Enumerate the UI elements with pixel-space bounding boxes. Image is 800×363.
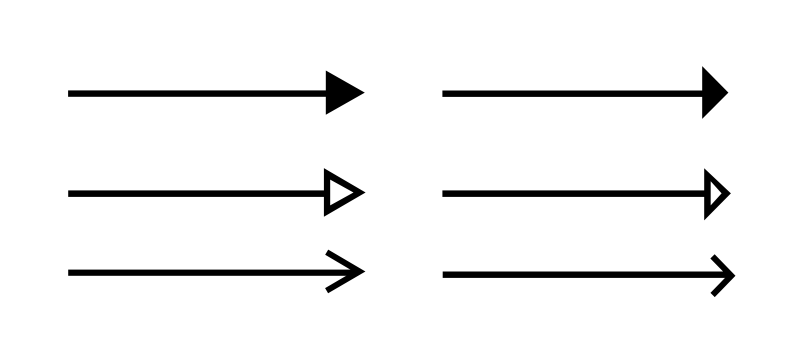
- arrow 3 (middle-left, hollow head): [68, 168, 365, 217]
- wire shaft of arrow 2: [442, 91, 706, 97]
- open V head of arrow 6: [713, 256, 732, 295]
- arrow 5 (bottom-left, open V head): [68, 252, 359, 291]
- arrow 1 (top-left, solid head): [68, 71, 365, 115]
- arrow 2 (top-right, solid head): [442, 66, 728, 119]
- wire shaft of arrow 1: [68, 90, 330, 96]
- hollow head outer triangle of arrow 4: [704, 168, 731, 220]
- wire shaft of arrow 4: [442, 190, 706, 197]
- open V head of arrow 5: [327, 252, 360, 291]
- solid triangular head of arrow 1: [326, 71, 365, 115]
- wire shaft of arrow 5: [68, 270, 356, 276]
- hollow head inner white triangle of arrow 3: [330, 180, 353, 206]
- wire shaft of arrow 6: [443, 272, 730, 278]
- solid triangular head of arrow 2: [702, 66, 728, 119]
- hollow head outer triangle of arrow 3: [324, 168, 366, 217]
- arrow 6 (bottom-right, open V head): [443, 256, 732, 295]
- wire shaft of arrow 3: [68, 190, 326, 197]
- arrow 4 (middle-right, hollow head): [442, 168, 731, 220]
- hollow head inner white triangle of arrow 4: [711, 181, 722, 205]
